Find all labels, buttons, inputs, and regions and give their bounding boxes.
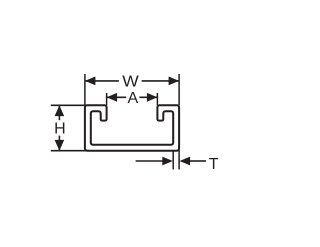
svg-text:A: A — [127, 90, 138, 107]
svg-text:H: H — [54, 120, 66, 137]
svg-text:W: W — [122, 74, 139, 91]
svg-text:T: T — [209, 156, 219, 173]
